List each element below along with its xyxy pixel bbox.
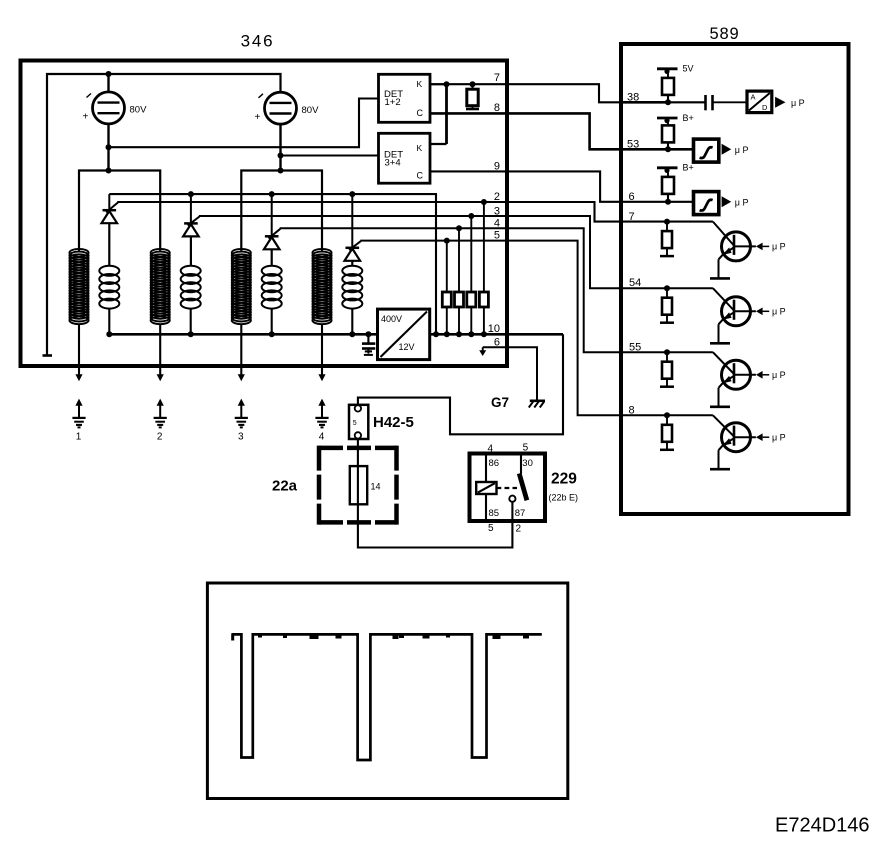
svg-text:229: 229 — [551, 471, 577, 488]
svg-text:5: 5 — [494, 230, 500, 242]
svg-text:μ P: μ P — [791, 98, 805, 108]
power supply B+ row 53 — [657, 113, 694, 123]
svg-text:346: 346 — [241, 32, 275, 51]
svg-text:38: 38 — [627, 92, 639, 104]
pin labels box 589 — [627, 92, 641, 417]
wire feed tee coils 3+4 — [241, 171, 322, 251]
resistor pull-down row 7 — [660, 219, 674, 257]
schmitt trigger row 53 — [694, 139, 719, 162]
converter A/D row 38 — [747, 91, 772, 113]
wire pin 8 (DET 1+2 C) to row 53 — [430, 113, 693, 149]
svg-text:7: 7 — [494, 72, 500, 84]
resistor gate pulldown R2 — [479, 199, 488, 337]
transistor Q4 row 8 — [710, 415, 756, 469]
resistor pull-up row 53 — [662, 118, 674, 152]
wire secondary L4b to spark gap — [321, 325, 323, 376]
svg-text:μ P: μ P — [735, 198, 749, 208]
svg-text:μ P: μ P — [772, 432, 786, 442]
inductor primary winding L3a — [262, 266, 282, 309]
box 346 border — [21, 61, 508, 367]
svg-text:87: 87 — [515, 508, 526, 519]
svg-text:E724D146: E724D146 — [775, 815, 870, 837]
svg-text:12V: 12V — [399, 342, 415, 352]
svg-text:G7: G7 — [491, 395, 509, 410]
svg-text:μ P: μ P — [735, 145, 749, 155]
wire secondary L1b to spark gap — [78, 325, 80, 376]
inductor secondary winding L3b — [232, 249, 251, 324]
wire pin 6 internal arrow — [479, 347, 486, 356]
capacitor B1 80V — [83, 92, 148, 124]
wire source B2 to coil feed tee — [279, 124, 281, 170]
resistor gate pulldown R5 — [442, 238, 451, 338]
schmitt trigger row 6 — [694, 192, 719, 215]
svg-text:30: 30 — [522, 458, 533, 469]
spark gap output cylinder 4 — [315, 374, 328, 442]
svg-text:55: 55 — [629, 342, 641, 354]
relay coil K1 — [476, 456, 496, 520]
pin labels box 346 — [488, 72, 500, 349]
wire gate 1 to pin 2 to driver row 7 — [117, 202, 713, 222]
svg-text:μ P: μ P — [772, 242, 786, 252]
thyristor V3 — [264, 194, 280, 266]
svg-text:6: 6 — [629, 191, 635, 203]
svg-text:8: 8 — [494, 102, 500, 114]
svg-text:4: 4 — [494, 218, 500, 230]
thyristor V4 — [345, 194, 361, 266]
svg-text:85: 85 — [489, 508, 500, 519]
wire cathode bus (node K) — [109, 194, 436, 334]
svg-text:+: + — [83, 112, 89, 123]
detector module DET 3+4 — [379, 133, 431, 183]
svg-text:C: C — [417, 171, 424, 181]
svg-text:C: C — [417, 108, 424, 118]
resistor pull-up row 6 — [662, 168, 674, 205]
relay pin labels — [488, 443, 533, 535]
svg-text:7: 7 — [629, 211, 635, 223]
svg-text:22a: 22a — [272, 478, 298, 495]
spark gap output cylinder 2 — [154, 374, 167, 442]
wire primary L3a to capacitor bus — [271, 308, 273, 334]
svg-text:14: 14 — [371, 482, 381, 492]
ground G7 chassis symbol — [529, 401, 545, 408]
svg-text:1: 1 — [76, 432, 82, 443]
svg-text:(22b E): (22b E) — [549, 493, 579, 503]
svg-text:2: 2 — [494, 191, 500, 203]
wire DET K pins common — [430, 83, 447, 85]
inductor secondary winding L1b — [69, 249, 88, 324]
svg-text:H42-5: H42-5 — [373, 414, 414, 431]
svg-text:B+: B+ — [683, 163, 694, 173]
svg-text:+: + — [255, 112, 261, 123]
power supply B+ row 6 — [657, 163, 694, 173]
resistor pull-down row 55 — [660, 349, 674, 387]
relay 229 border — [470, 454, 546, 522]
wire gate 2 to pin 3 to driver row 54 — [199, 216, 713, 288]
wire capacitor bus right segment (pin 10) — [430, 333, 563, 336]
inductor primary winding L4a — [342, 266, 362, 309]
svg-text:5: 5 — [488, 523, 494, 534]
wire capacitor bus left segment — [109, 333, 377, 336]
svg-text:K: K — [417, 143, 423, 153]
fuse F14 — [350, 466, 381, 504]
svg-text:5: 5 — [353, 420, 357, 427]
svg-text:400V: 400V — [381, 314, 402, 324]
inductor primary winding L1a — [99, 266, 119, 309]
svg-text:3: 3 — [494, 205, 500, 217]
svg-text:6: 6 — [494, 337, 500, 349]
oscilloscope frame — [207, 583, 567, 799]
wire primary L1a to capacitor bus — [108, 308, 110, 334]
resistor gate pulldown R3 — [467, 213, 476, 337]
svg-text:86: 86 — [489, 458, 500, 469]
inductor secondary winding L4b — [312, 249, 331, 324]
svg-text:2: 2 — [157, 432, 163, 443]
capacitor B2 80V — [255, 92, 320, 124]
fuse box 22a border — [319, 446, 397, 451]
wire pin 9 (DET 3+4 C) to row 6 — [430, 171, 693, 201]
resistor pull-down row 54 — [660, 285, 674, 323]
node top supply wire with left ground return — [47, 74, 281, 356]
box 589 border — [621, 44, 849, 514]
wire gate 4 to pin 5 to driver row 8 — [360, 241, 713, 416]
inductor primary winding L2a — [181, 266, 201, 309]
arrow from microprocessor row 54 — [756, 307, 786, 317]
arrow from microprocessor row 55 — [756, 370, 786, 380]
svg-text:10: 10 — [488, 323, 500, 335]
spark gap output cylinder 1 — [72, 374, 85, 442]
thyristor V1 — [102, 194, 118, 266]
svg-text:μ P: μ P — [772, 370, 786, 380]
svg-text:80V: 80V — [130, 105, 148, 116]
arrow from microprocessor row 7 — [756, 242, 786, 252]
wire secondary L3b to spark gap — [240, 325, 242, 376]
wire feed tee coils 1+2 — [79, 171, 160, 251]
svg-text:4: 4 — [319, 432, 325, 443]
wire secondary L2b to spark gap — [159, 325, 161, 376]
svg-text:3+4: 3+4 — [385, 158, 401, 169]
wire pin 7 line to row 38 — [430, 84, 705, 102]
wire source B1 to coil feed tee — [107, 124, 109, 171]
waveform noise ticks — [231, 635, 529, 641]
svg-text:8: 8 — [629, 405, 635, 417]
resistor pull-down row 8 — [660, 412, 674, 450]
svg-text:B+: B+ — [683, 113, 694, 123]
wire H42-5 to fuse to relay pin 2 — [358, 439, 513, 548]
svg-text:80V: 80V — [302, 105, 320, 116]
arrow to microprocessor row 53 — [722, 144, 732, 155]
wire primary L4a to capacitor bus — [351, 308, 353, 334]
transistor Q2 row 54 — [710, 288, 756, 343]
relay switch contact — [497, 456, 527, 520]
inductor secondary winding L2b — [151, 249, 170, 324]
spark gap output cylinder 3 — [235, 374, 248, 442]
svg-text:K: K — [417, 79, 423, 89]
wire stub source B1 top — [107, 74, 109, 92]
resistor pull-up row 38 — [662, 69, 674, 106]
capacitor C1 reservoir — [362, 331, 375, 355]
wire gate 3 to pin 4 to driver row 55 — [280, 228, 713, 352]
svg-text:5V: 5V — [683, 64, 694, 74]
dc converter U3 400V/12V — [378, 309, 430, 360]
resistor R1 on K line — [466, 84, 479, 109]
arrow to microprocessor row 38 — [775, 97, 785, 108]
detector module DET 1+2 — [379, 74, 431, 122]
wire row 38 line — [621, 101, 667, 104]
transistor Q1 row 7 — [710, 222, 756, 279]
svg-text:2: 2 — [516, 524, 522, 535]
thyristor V2 — [183, 194, 199, 266]
svg-text:5: 5 — [523, 443, 529, 454]
arrow from microprocessor row 8 — [756, 432, 786, 442]
svg-text:589: 589 — [710, 25, 740, 43]
svg-text:A: A — [751, 93, 756, 102]
wire pin 10 to H42-5 — [358, 334, 563, 434]
wire primary L2a to capacitor bus — [190, 308, 192, 334]
svg-text:9: 9 — [494, 161, 500, 173]
resistor gate pulldown R4 — [455, 225, 464, 337]
wire source B2 to DET 3+4 input — [281, 154, 379, 156]
capacitor C2 coupling row 38 — [706, 95, 748, 110]
wire source B1 to DET 1+2 input — [109, 99, 379, 148]
svg-text:3: 3 — [238, 432, 244, 443]
svg-text:54: 54 — [629, 277, 641, 289]
transistor Q3 row 55 — [710, 352, 756, 407]
svg-text:μ P: μ P — [772, 307, 786, 317]
power supply 5V row 38 — [657, 64, 694, 74]
svg-text:53: 53 — [627, 139, 639, 151]
oscilloscope waveform trace — [231, 634, 541, 760]
svg-text:D: D — [762, 103, 768, 112]
svg-text:1+2: 1+2 — [385, 97, 401, 108]
wire pin 6 to ground G7 — [483, 347, 537, 400]
connector H42-5 — [349, 405, 368, 439]
arrow to microprocessor row 6 — [722, 196, 732, 207]
svg-text:4: 4 — [488, 444, 494, 455]
